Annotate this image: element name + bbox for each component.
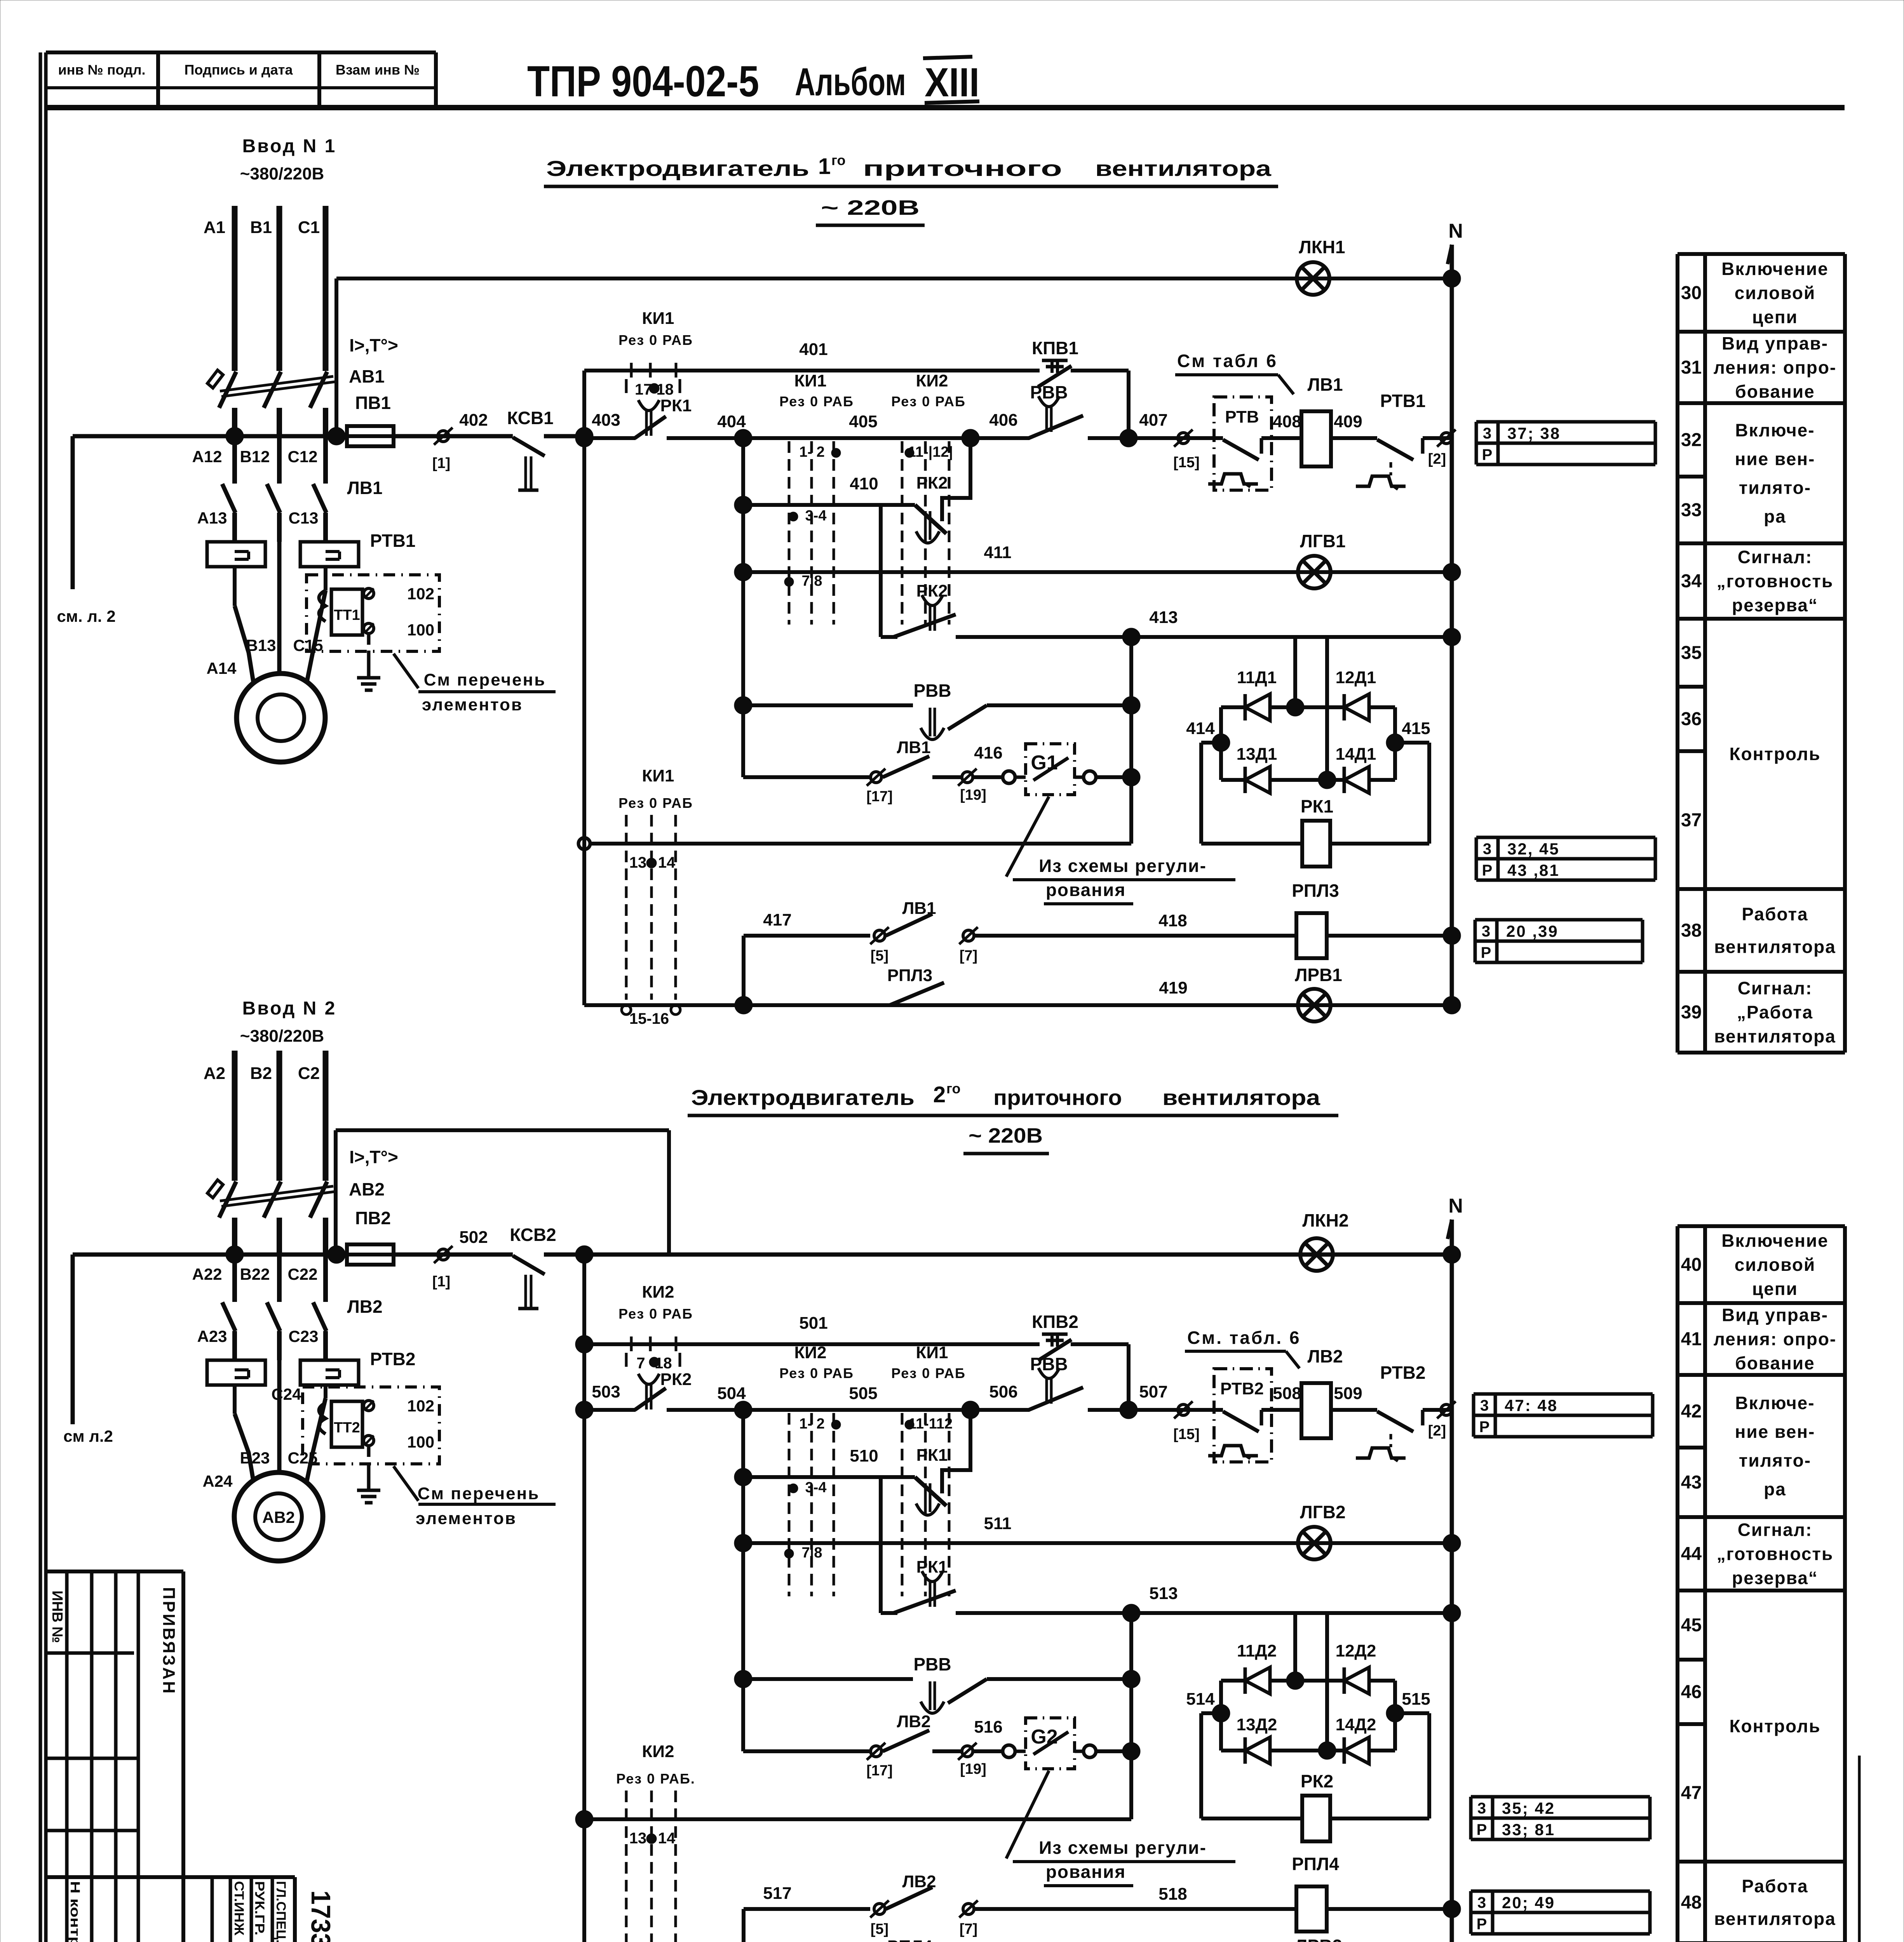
svg-text:Рез 0 РАБ: Рез 0 РАБ	[618, 795, 693, 811]
svg-text:514: 514	[1186, 1690, 1215, 1709]
svg-text:47: 48: 47: 48	[1505, 1396, 1558, 1415]
svg-text:Работа: Работа	[1742, 904, 1808, 924]
svg-text:Вид управ-: Вид управ-	[1722, 333, 1828, 353]
svg-text:ТТ1: ТТ1	[334, 607, 360, 623]
svg-text:405: 405	[849, 412, 877, 431]
svg-text:N: N	[1448, 220, 1463, 242]
svg-text:ПВ1: ПВ1	[355, 393, 391, 413]
svg-text:КИ2: КИ2	[916, 371, 948, 390]
svg-text:В23: В23	[240, 1449, 270, 1467]
svg-text:~380/220В: ~380/220В	[240, 1027, 324, 1046]
svg-text:инв № подл.: инв № подл.	[58, 62, 145, 78]
svg-text:ЛРВ1: ЛРВ1	[1295, 965, 1342, 985]
svg-text:ЛГВ1: ЛГВ1	[1300, 531, 1345, 551]
svg-text:ние вен-: ние вен-	[1735, 449, 1815, 469]
svg-text:С12: С12	[287, 447, 317, 466]
svg-text:„готовность: „готовность	[1717, 1544, 1833, 1564]
svg-text:I>,T°>: I>,T°>	[349, 1147, 398, 1167]
svg-text:РК2: РК2	[1301, 1771, 1333, 1791]
svg-text:ЛВ2: ЛВ2	[902, 1872, 936, 1891]
svg-text:102: 102	[407, 1397, 434, 1415]
svg-text:вентилятора: вентилятора	[1162, 1085, 1320, 1110]
svg-text:Из схемы регули-: Из схемы регули-	[1039, 1838, 1207, 1858]
svg-text:14Д2: 14Д2	[1336, 1715, 1376, 1734]
svg-text:КИ2: КИ2	[794, 1343, 827, 1362]
svg-text:407: 407	[1139, 411, 1167, 430]
svg-text:А13: А13	[197, 509, 227, 527]
svg-text:См перечень: См перечень	[424, 670, 546, 689]
svg-text:409: 409	[1334, 412, 1362, 431]
svg-text:411: 411	[984, 543, 1012, 562]
svg-text:приточного: приточного	[993, 1085, 1122, 1110]
svg-text:Рез 0 РАБ.: Рез 0 РАБ.	[616, 1771, 695, 1787]
svg-text:вентилятора: вентилятора	[1714, 1909, 1836, 1929]
svg-text:511: 511	[984, 1514, 1012, 1533]
svg-text:В13: В13	[246, 636, 276, 654]
svg-text:Контроль: Контроль	[1729, 744, 1820, 764]
svg-text:бование: бование	[1735, 1353, 1815, 1373]
svg-text:513: 513	[1149, 1584, 1178, 1603]
svg-text:С22: С22	[287, 1265, 317, 1283]
svg-text:32, 45: 32, 45	[1507, 840, 1560, 858]
svg-text:516: 516	[974, 1718, 1002, 1737]
svg-text:ЛГВ2: ЛГВ2	[1300, 1502, 1345, 1522]
svg-text:7|8: 7|8	[802, 1545, 822, 1561]
svg-text:Сигнал:: Сигнал:	[1738, 547, 1813, 567]
svg-text:РВВ: РВВ	[1030, 1354, 1068, 1374]
svg-text:30: 30	[1681, 283, 1702, 303]
svg-text:403: 403	[592, 411, 620, 430]
svg-text:~ 220В: ~ 220В	[969, 1124, 1043, 1147]
svg-text:А12: А12	[192, 447, 222, 466]
svg-text:ТПР 904-02-5: ТПР 904-02-5	[527, 57, 759, 106]
svg-text:46: 46	[1681, 1682, 1702, 1702]
svg-text:504: 504	[717, 1384, 746, 1403]
svg-text:506: 506	[989, 1382, 1017, 1401]
svg-text:410: 410	[850, 474, 878, 493]
svg-text:[2]: [2]	[1428, 451, 1446, 467]
svg-text:вентилятора: вентилятора	[1714, 937, 1836, 957]
svg-text:В2: В2	[250, 1064, 272, 1083]
svg-text:15-16: 15-16	[629, 1010, 669, 1027]
svg-text:РК2: РК2	[916, 473, 948, 492]
svg-text:33: 33	[1681, 500, 1702, 520]
svg-text:ЛВ1: ЛВ1	[902, 899, 936, 918]
svg-text:419: 419	[1159, 978, 1187, 997]
svg-text:38: 38	[1681, 921, 1702, 941]
svg-text:цепи: цепи	[1752, 1279, 1798, 1299]
svg-text:[7]: [7]	[960, 948, 977, 964]
svg-text:силовой: силовой	[1735, 1255, 1816, 1275]
svg-text:34: 34	[1681, 571, 1702, 592]
svg-text:С2: С2	[298, 1064, 320, 1083]
svg-text:РТВ2: РТВ2	[370, 1349, 416, 1369]
svg-text:ЛВ1: ЛВ1	[347, 478, 382, 498]
svg-text:507: 507	[1139, 1382, 1167, 1401]
svg-text:39: 39	[1681, 1002, 1702, 1023]
svg-text:Ввод N 2: Ввод N 2	[242, 998, 337, 1019]
svg-text:3: 3	[1477, 1800, 1486, 1817]
svg-text:508: 508	[1273, 1384, 1301, 1403]
svg-text:11-112: 11-112	[908, 1416, 953, 1432]
svg-text:Из схемы регули-: Из схемы регули-	[1039, 856, 1207, 876]
svg-text:ЛВ2: ЛВ2	[347, 1296, 382, 1317]
svg-text:N: N	[1448, 1195, 1463, 1217]
svg-text:„готовность: „готовность	[1717, 571, 1833, 591]
svg-text:Р: Р	[1481, 944, 1491, 961]
svg-text:КИ1: КИ1	[794, 371, 827, 390]
svg-text:элементов: элементов	[416, 1509, 517, 1528]
svg-text:Электродвигатель: Электродвигатель	[691, 1085, 915, 1110]
svg-text:Включение: Включение	[1721, 259, 1829, 279]
svg-text:Включе-: Включе-	[1735, 420, 1815, 440]
svg-text:Подпись и дата: Подпись и дата	[185, 62, 293, 78]
svg-text:Работа: Работа	[1742, 1876, 1808, 1896]
svg-text:С23: С23	[288, 1327, 318, 1345]
svg-text:С13: С13	[288, 509, 318, 527]
svg-text:А14: А14	[206, 659, 237, 677]
svg-text:ра: ра	[1764, 1479, 1786, 1499]
svg-text:РТВ2: РТВ2	[1380, 1363, 1426, 1383]
svg-text:РК1: РК1	[660, 396, 692, 415]
svg-text:[5]: [5]	[871, 1921, 888, 1937]
svg-text:ЛКН2: ЛКН2	[1302, 1210, 1348, 1230]
svg-text:А24: А24	[202, 1472, 233, 1490]
svg-text:12Д2: 12Д2	[1336, 1641, 1376, 1660]
svg-text:415: 415	[1402, 719, 1430, 738]
svg-text:А1: А1	[204, 218, 225, 237]
svg-text:Рез 0 РАБ: Рез 0 РАБ	[618, 332, 693, 348]
svg-text:ПРИВЯЗАН: ПРИВЯЗАН	[159, 1587, 178, 1695]
svg-text:13Д1: 13Д1	[1237, 745, 1277, 764]
svg-text:102: 102	[407, 585, 434, 603]
svg-text:~ 220В: ~ 220В	[821, 196, 920, 219]
svg-text:В12: В12	[240, 447, 270, 466]
svg-text:ЛРВ2: ЛРВ2	[1295, 1936, 1342, 1942]
svg-text:1- 2: 1- 2	[799, 444, 824, 460]
svg-text:АВ2: АВ2	[349, 1179, 385, 1199]
svg-text:Р: Р	[1482, 862, 1493, 879]
svg-text:509: 509	[1334, 1384, 1362, 1403]
svg-text:„Работа: „Работа	[1737, 1002, 1813, 1022]
svg-text:ИНВ №: ИНВ №	[49, 1590, 65, 1643]
svg-text:11-|12|: 11-|12|	[908, 444, 953, 460]
svg-text:11Д1: 11Д1	[1237, 668, 1277, 687]
svg-text:ПВ2: ПВ2	[355, 1208, 391, 1228]
svg-text:С15: С15	[293, 636, 323, 654]
svg-text:КПВ2: КПВ2	[1032, 1312, 1078, 1332]
svg-text:КСВ2: КСВ2	[510, 1225, 556, 1245]
svg-text:11Д2: 11Д2	[1237, 1641, 1277, 1660]
svg-text:го: го	[831, 152, 846, 168]
svg-text:В1: В1	[250, 218, 272, 237]
svg-text:РК1: РК1	[1301, 796, 1333, 816]
svg-text:40: 40	[1681, 1255, 1702, 1275]
svg-text:Рез 0 РАБ: Рез 0 РАБ	[891, 1365, 966, 1381]
svg-text:XIII: XIII	[925, 60, 979, 105]
svg-text:Вид управ-: Вид управ-	[1722, 1305, 1828, 1325]
svg-text:Взам инв №: Взам инв №	[336, 62, 420, 78]
svg-text:бование: бование	[1735, 381, 1815, 402]
svg-text:418: 418	[1158, 911, 1187, 930]
svg-text:С1: С1	[298, 218, 320, 237]
svg-text:41: 41	[1681, 1329, 1702, 1350]
svg-text:[5]: [5]	[871, 948, 888, 964]
svg-text:[19]: [19]	[960, 1761, 986, 1777]
svg-text:[17]: [17]	[866, 788, 893, 805]
svg-text:100: 100	[407, 1433, 434, 1451]
svg-text:3: 3	[1480, 1397, 1489, 1414]
svg-text:Контроль: Контроль	[1729, 1716, 1820, 1736]
svg-text:Рез 0 РАБ: Рез 0 РАБ	[618, 1306, 693, 1322]
svg-text:1: 1	[818, 154, 831, 179]
svg-text:48: 48	[1681, 1892, 1702, 1913]
svg-text:См. табл. 6: См. табл. 6	[1187, 1328, 1301, 1348]
svg-text:А22: А22	[192, 1265, 222, 1283]
svg-text:ЛВ1: ЛВ1	[1307, 374, 1343, 395]
svg-text:вентилятора: вентилятора	[1714, 1026, 1836, 1046]
svg-text:Рез 0 РАБ: Рез 0 РАБ	[891, 393, 966, 409]
svg-text:резерва“: резерва“	[1732, 595, 1818, 615]
svg-text:13: 13	[629, 854, 647, 871]
svg-text:резерва“: резерва“	[1732, 1568, 1818, 1588]
svg-text:36: 36	[1681, 709, 1702, 729]
svg-text:13: 13	[629, 1830, 647, 1847]
svg-text:элементов: элементов	[422, 695, 523, 714]
svg-text:47: 47	[1681, 1783, 1702, 1803]
svg-text:РТВ2: РТВ2	[1220, 1379, 1264, 1398]
svg-text:33; 81: 33; 81	[1502, 1820, 1555, 1839]
svg-text:7|8: 7|8	[802, 573, 822, 589]
svg-text:силовой: силовой	[1735, 283, 1816, 303]
svg-text:3: 3	[1483, 425, 1491, 442]
svg-text:502: 502	[459, 1228, 488, 1247]
svg-text:44: 44	[1681, 1544, 1702, 1564]
svg-text:[1]: [1]	[432, 455, 450, 472]
svg-text:ЛВ1: ЛВ1	[897, 738, 930, 757]
svg-text:[17]: [17]	[866, 1763, 893, 1779]
svg-text:С25: С25	[287, 1449, 317, 1467]
svg-text:рования: рования	[1046, 1862, 1126, 1882]
svg-text:РПЛ3: РПЛ3	[887, 966, 932, 985]
svg-text:43 ,81: 43 ,81	[1507, 861, 1560, 879]
svg-text:РУК.ГР.: РУК.ГР.	[252, 1881, 267, 1935]
svg-text:408: 408	[1273, 412, 1301, 431]
svg-text:14: 14	[658, 1830, 676, 1847]
svg-text:РВВ: РВВ	[1030, 382, 1068, 402]
svg-text:А23: А23	[197, 1327, 227, 1345]
svg-text:РТВ: РТВ	[1225, 407, 1259, 426]
svg-text:3-4: 3-4	[805, 1479, 827, 1496]
svg-text:G2: G2	[1031, 1726, 1057, 1748]
svg-text:413: 413	[1149, 608, 1178, 627]
svg-text:КИ1: КИ1	[916, 1343, 948, 1362]
svg-text:35: 35	[1681, 643, 1702, 663]
svg-text:КСВ1: КСВ1	[507, 408, 554, 428]
svg-text:Сигнал:: Сигнал:	[1738, 1520, 1813, 1540]
svg-text:404: 404	[717, 412, 746, 431]
svg-text:см. л. 2: см. л. 2	[57, 607, 115, 625]
svg-text:401: 401	[799, 340, 827, 359]
svg-text:42: 42	[1681, 1401, 1702, 1422]
svg-text:РТВ1: РТВ1	[370, 531, 416, 551]
svg-text:515: 515	[1402, 1690, 1430, 1709]
svg-text:Р: Р	[1477, 1821, 1487, 1838]
svg-text:КИ2: КИ2	[642, 1742, 674, 1761]
svg-text:[15]: [15]	[1173, 1426, 1200, 1443]
svg-text:37: 37	[1681, 810, 1702, 831]
svg-text:[1]: [1]	[432, 1274, 450, 1290]
svg-text:Рез 0 РАБ: Рез 0 РАБ	[779, 393, 854, 409]
svg-text:ления: опро-: ления: опро-	[1714, 357, 1837, 378]
svg-text:рования: рования	[1046, 880, 1126, 900]
svg-text:Ввод N 1: Ввод N 1	[242, 136, 337, 157]
svg-text:45: 45	[1681, 1615, 1702, 1636]
svg-text:414: 414	[1186, 719, 1215, 738]
svg-text:А2: А2	[204, 1064, 225, 1083]
svg-text:[2]: [2]	[1428, 1423, 1446, 1439]
svg-text:РВВ: РВВ	[913, 1654, 951, 1674]
svg-text:РПЛ3: РПЛ3	[1292, 881, 1339, 901]
svg-text:17333-14: 17333-14	[306, 1890, 336, 1942]
svg-text:тилято-: тилято-	[1739, 1450, 1811, 1470]
svg-text:См перечень: См перечень	[418, 1484, 540, 1503]
svg-text:тилято-: тилято-	[1739, 478, 1811, 498]
svg-text:20 ,39: 20 ,39	[1506, 922, 1559, 940]
svg-text:РПЛ4: РПЛ4	[887, 1937, 933, 1942]
svg-text:КИ1: КИ1	[642, 766, 674, 785]
svg-text:402: 402	[459, 411, 488, 430]
svg-text:СТ.ИНЖ: СТ.ИНЖ	[232, 1881, 246, 1935]
svg-text:3: 3	[1482, 923, 1490, 940]
svg-text:приточного: приточного	[863, 156, 1062, 181]
svg-text:КИ1: КИ1	[642, 309, 674, 328]
svg-text:РК1: РК1	[916, 1446, 948, 1465]
svg-text:Р: Р	[1477, 1916, 1487, 1933]
svg-text:406: 406	[989, 411, 1017, 430]
svg-text:31: 31	[1681, 357, 1702, 378]
svg-text:14Д1: 14Д1	[1336, 745, 1376, 764]
svg-text:Включение: Включение	[1721, 1230, 1829, 1251]
svg-text:43: 43	[1681, 1472, 1702, 1493]
svg-text:Сигнал:: Сигнал:	[1738, 978, 1813, 998]
svg-text:3: 3	[1483, 840, 1491, 858]
svg-text:ТТ2: ТТ2	[334, 1420, 360, 1436]
svg-text:14: 14	[658, 854, 676, 871]
svg-text:КПВ1: КПВ1	[1032, 338, 1078, 358]
svg-text:Р: Р	[1479, 1418, 1490, 1436]
svg-text:37; 38: 37; 38	[1507, 424, 1561, 442]
svg-text:ЛВ2: ЛВ2	[1307, 1346, 1343, 1366]
svg-text:13Д2: 13Д2	[1237, 1715, 1277, 1734]
svg-text:ГЛ.СПЕЦ.: ГЛ.СПЕЦ.	[273, 1881, 288, 1942]
svg-text:I>,T°>: I>,T°>	[349, 335, 398, 355]
svg-text:АВ1: АВ1	[349, 366, 385, 386]
svg-text:Электродвигатель: Электродвигатель	[546, 156, 809, 181]
svg-text:Н контр: Н контр	[68, 1881, 82, 1942]
svg-text:ЛВ2: ЛВ2	[897, 1712, 930, 1731]
svg-text:[15]: [15]	[1173, 454, 1200, 471]
svg-text:цепи: цепи	[1752, 307, 1798, 327]
svg-text:Включе-: Включе-	[1735, 1393, 1815, 1413]
svg-text:32: 32	[1681, 430, 1702, 451]
svg-text:12Д1: 12Д1	[1336, 668, 1376, 687]
svg-text:3: 3	[1477, 1894, 1486, 1911]
svg-text:ра: ра	[1764, 506, 1786, 527]
svg-text:517: 517	[763, 1884, 791, 1903]
svg-text:см л.2: см л.2	[63, 1427, 113, 1445]
svg-text:ления: опро-: ления: опро-	[1714, 1329, 1837, 1349]
svg-text:См табл 6: См табл 6	[1177, 351, 1278, 371]
svg-text:505: 505	[849, 1384, 877, 1403]
svg-text:G1: G1	[1031, 752, 1057, 774]
svg-text:518: 518	[1158, 1885, 1187, 1904]
svg-text:го: го	[946, 1081, 961, 1096]
svg-text:417: 417	[763, 910, 791, 929]
svg-text:РВВ: РВВ	[913, 680, 951, 701]
svg-text:В22: В22	[240, 1265, 270, 1283]
svg-text:Альбом: Альбом	[795, 60, 906, 104]
svg-text:[19]: [19]	[960, 787, 986, 803]
svg-text:20; 49: 20; 49	[1502, 1893, 1555, 1912]
svg-text:3-4: 3-4	[805, 508, 827, 524]
svg-text:РПЛ4: РПЛ4	[1292, 1854, 1339, 1874]
svg-text:100: 100	[407, 621, 434, 639]
svg-text:ЛКН1: ЛКН1	[1299, 237, 1345, 257]
svg-text:РТВ1: РТВ1	[1380, 391, 1426, 411]
svg-text:АВ2: АВ2	[262, 1508, 295, 1526]
svg-text:501: 501	[799, 1314, 827, 1333]
svg-text:510: 510	[850, 1446, 878, 1465]
svg-text:Рез 0 РАБ: Рез 0 РАБ	[779, 1365, 854, 1381]
svg-text:[7]: [7]	[960, 1921, 977, 1937]
svg-text:РК2: РК2	[660, 1370, 692, 1389]
svg-text:~380/220В: ~380/220В	[240, 164, 324, 183]
svg-text:С24: С24	[271, 1385, 301, 1403]
svg-text:2: 2	[933, 1082, 946, 1107]
svg-text:503: 503	[592, 1382, 620, 1401]
svg-text:1- 2: 1- 2	[799, 1416, 824, 1432]
svg-text:КИ2: КИ2	[642, 1282, 674, 1302]
svg-text:вентилятора: вентилятора	[1095, 156, 1272, 181]
svg-text:ние вен-: ние вен-	[1735, 1422, 1815, 1442]
svg-text:35; 42: 35; 42	[1502, 1799, 1555, 1817]
svg-text:Р: Р	[1482, 446, 1493, 463]
svg-text:416: 416	[974, 743, 1002, 762]
